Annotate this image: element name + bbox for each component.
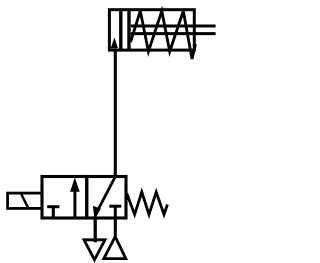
valve V1 body right box [87,177,126,219]
supply triangle port 1 [104,237,126,259]
wire valve port 1 to supply [114,218,117,237]
exhaust triangle port 3 [84,240,105,260]
cylinder piston rod bottom line [131,32,216,35]
left box flow arrow up [70,178,80,218]
cylinder piston line 1 [119,9,122,51]
cylinder piston rod top line [131,25,216,28]
cylinder piston line 2 [127,9,130,51]
valve return spring [127,192,168,215]
cylinder return spring [131,11,196,59]
manual actuator [8,193,42,208]
wire valve port 3 to exhaust [94,218,97,242]
wire cylinder port to valve port 2 [114,49,117,178]
valve V1 body left box [42,177,87,219]
cylinder A1 body [109,10,194,50]
right box flow diagonal arrow [93,177,116,220]
left box blocked port T [47,207,59,218]
right box blocked port T [109,206,121,217]
cylinder port flow arrow [111,37,118,48]
